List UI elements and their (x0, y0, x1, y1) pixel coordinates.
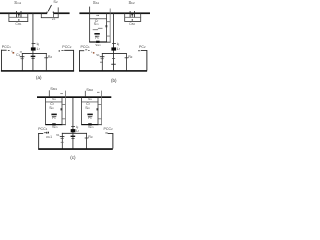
label Rd (b) (128, 56, 132, 60)
label Cf right (c) (86, 103, 89, 107)
label PCC2 (a) (62, 46, 71, 50)
current tick i_g (b) (112, 42, 116, 45)
label PCC1 (c) (38, 128, 47, 132)
label PCC2 (c) (104, 128, 113, 132)
switch S2 blade (a) (47, 5, 54, 15)
label ig (b) (117, 42, 119, 46)
caption (a) (36, 76, 42, 81)
label Lf (a) (37, 47, 40, 51)
bottom rail (a) (1, 70, 74, 72)
label Sm (b) (94, 23, 99, 27)
label vsm (b) (96, 44, 101, 48)
node line (b) (102, 52, 127, 55)
terminal right (c) (105, 133, 113, 149)
submodule box SM2 (c) (81, 91, 102, 126)
breaker element S_b2 on bus (b) (130, 11, 135, 21)
bottom rail (b) (79, 70, 147, 72)
label PCC1 (a) (2, 46, 11, 50)
label ig (a) (37, 42, 39, 46)
bus (c) (37, 96, 111, 98)
label Sm right (c) (85, 107, 90, 111)
battery branch mid (b) (111, 53, 116, 70)
orange arrow (a) (13, 52, 15, 54)
label Sb2 (b) (129, 1, 135, 5)
caption (c) (70, 156, 75, 161)
resistor branch right (a) (44, 53, 48, 70)
hybrid switch S_m1 loop (a) (9, 13, 29, 22)
label P (b) (95, 37, 99, 41)
wire vertical mid (b) (112, 13, 115, 53)
terminal right (b) (138, 50, 147, 71)
capacitor branch mid (a) (31, 53, 36, 70)
hybrid switch S_b2 loop (b) (124, 13, 141, 21)
submodule box S_b1 (b) (89, 7, 110, 43)
inductor L_f (c) (71, 129, 76, 132)
label vsm right (c) (88, 126, 93, 130)
label S2 (a) (53, 1, 57, 5)
bus (b) (79, 12, 150, 14)
terminal left (c) (38, 132, 49, 149)
capacitor branch left (c) (60, 133, 65, 149)
submodule box SM1 (c) (45, 90, 66, 125)
label Sm left (c) (49, 107, 54, 111)
current tick i_g (c) (71, 125, 75, 128)
capacitor branch left (a) (20, 52, 25, 71)
label Sm1 (a) (14, 1, 21, 5)
label CB1 (a) (15, 23, 21, 27)
label Cf (b) (95, 20, 98, 24)
label Cf left (c) (50, 103, 53, 107)
label C1 (a) (16, 54, 20, 58)
resistor branch right (b) (125, 53, 129, 70)
label Lf (c) (76, 130, 79, 134)
label PCC1 (b) (81, 46, 90, 50)
label P right (c) (88, 117, 92, 121)
caption (b) (111, 79, 117, 84)
label CB2 (b) (129, 23, 135, 27)
resistor branch right (c) (85, 133, 89, 149)
terminal left (a) (1, 50, 12, 71)
bottom rail (c) (38, 148, 113, 150)
capacitor branch mid (c) (71, 133, 76, 149)
bus (a) (0, 12, 70, 14)
label vdc (c) (46, 136, 52, 140)
label v1 (c) (56, 134, 59, 138)
label Rd (c) (88, 136, 92, 140)
terminal left (b) (79, 50, 92, 71)
terminal right (a) (59, 50, 74, 71)
node line (a) (22, 52, 47, 55)
label Rd (a) (48, 56, 52, 60)
label SM2 (c) (86, 88, 93, 92)
label SM1 (c) (50, 87, 57, 91)
label P left (c) (52, 117, 56, 121)
label cs2 (c) (88, 98, 92, 102)
node line (c) (62, 132, 87, 135)
current tick i_g (a) (32, 42, 36, 45)
battery branch left (b) (100, 53, 105, 70)
inductor L_f (b) (111, 47, 116, 50)
label Lf (b) (117, 47, 120, 51)
label v1 (b) (96, 54, 99, 58)
label Sb1 (b) (93, 1, 99, 5)
label cs1 (c) (52, 98, 56, 102)
wire vertical mid (c) (72, 98, 75, 133)
label Z1 (a) (52, 18, 56, 22)
orange arrow (b) (93, 52, 95, 54)
switch S2 bypass loop (a) (41, 7, 59, 18)
breaker element S_m1 on bus (a) (16, 11, 21, 21)
inductor L_f (a) (31, 47, 36, 50)
label PCC2 (b) (139, 46, 146, 50)
label vsm left (c) (52, 126, 57, 130)
label ig (c) (76, 126, 78, 130)
wire vertical mid (a) (32, 13, 35, 53)
